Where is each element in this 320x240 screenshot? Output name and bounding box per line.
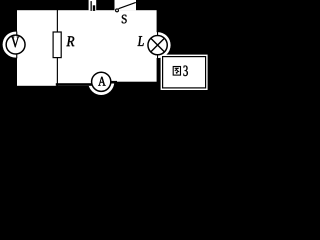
wire stub L top bbox=[157, 32, 158, 37]
switch notch bbox=[115, 0, 137, 10]
lamp cross stroke 2 bbox=[151, 38, 165, 52]
ammeter label A bbox=[98, 77, 105, 86]
wire R bottom bbox=[57, 57, 58, 86]
battery B1 long plate bbox=[91, 1, 92, 11]
ammeter halo bbox=[88, 69, 114, 95]
resistor R1 bbox=[53, 32, 61, 58]
wire stub L bottom bbox=[157, 55, 158, 60]
figure label digit 3 bbox=[184, 66, 188, 76]
lamp halo bbox=[145, 32, 171, 58]
voltmeter halo bbox=[3, 32, 29, 58]
switch S1 terminal bbox=[116, 9, 119, 12]
lamp label L bbox=[138, 36, 144, 46]
battery notch bbox=[89, 0, 97, 10]
white circuit interior left part bbox=[17, 10, 103, 86]
wire bottom horizontal bbox=[56, 83, 92, 86]
figure label CJK glyph tu (picture) bbox=[173, 67, 180, 76]
lamp L1 circle bbox=[148, 35, 167, 54]
switch label S bbox=[122, 15, 127, 24]
voltmeter V1 bbox=[6, 35, 25, 54]
wire stub V bottom bbox=[16, 54, 17, 59]
voltmeter label V bbox=[11, 37, 19, 48]
battery B1 short plate bbox=[93, 5, 95, 11]
lamp cross stroke 1 bbox=[151, 38, 165, 52]
figure box border bbox=[163, 57, 206, 88]
ammeter A1 bbox=[92, 72, 111, 91]
wire stub V top bbox=[16, 32, 17, 37]
switch S1 blade bbox=[119, 2, 136, 8]
wire R top bbox=[57, 10, 58, 33]
wire stub A right bbox=[111, 81, 118, 84]
resistor label R bbox=[66, 36, 74, 46]
white circuit interior right part bbox=[103, 10, 157, 82]
figure label white box bbox=[161, 55, 208, 90]
